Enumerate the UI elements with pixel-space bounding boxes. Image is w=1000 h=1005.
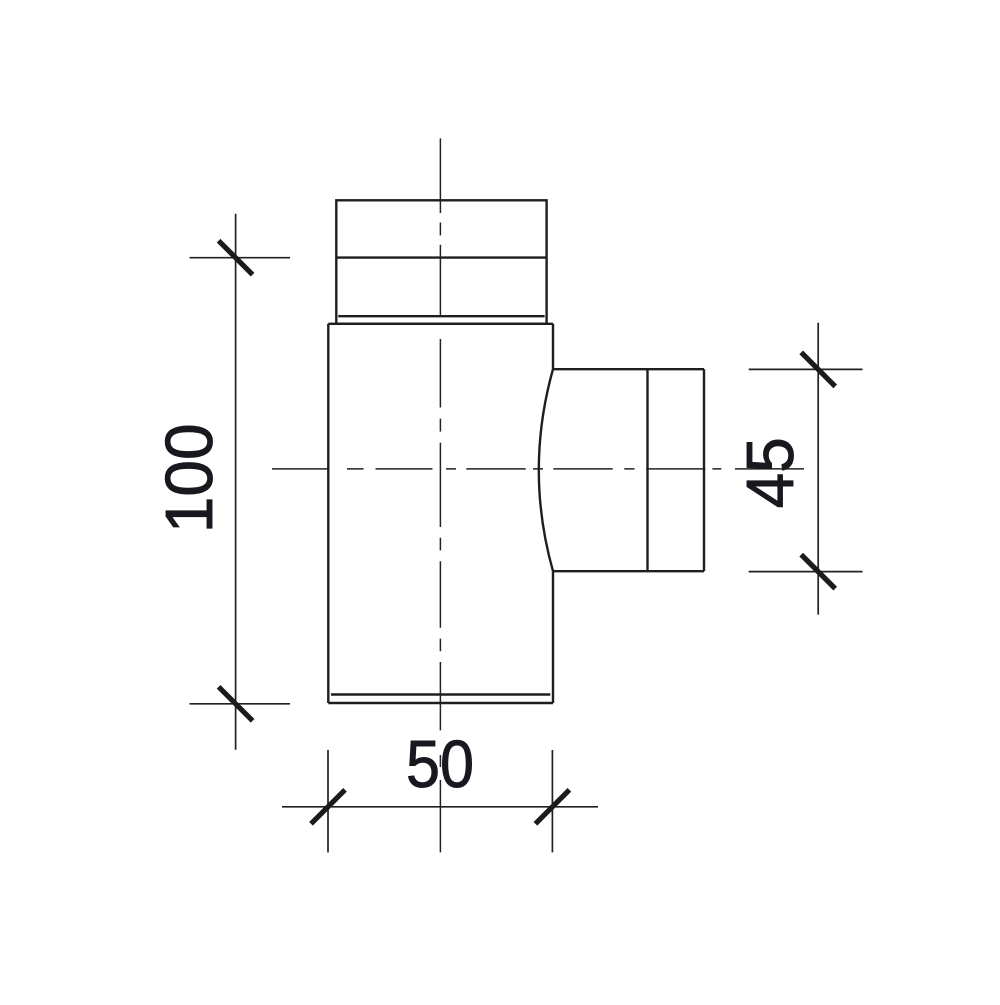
dimension 50 witness right	[551, 750, 553, 852]
spigot top outline (upper pipe end)	[336, 200, 546, 323]
svg-text:50: 50	[406, 727, 474, 802]
dimension 100 tick bottom	[219, 687, 253, 721]
dimension 50 witness left	[327, 750, 329, 852]
chamfer line top spigot	[338, 315, 544, 317]
dimension 45 extension bottom	[749, 571, 863, 573]
body right edge below branch	[552, 571, 554, 703]
dimension 100 extension bottom	[190, 703, 291, 705]
vertical centerline	[439, 138, 441, 852]
body right edge above branch	[552, 324, 554, 369]
dimension 50 tick right	[535, 790, 569, 824]
body chamfer line bottom	[331, 693, 550, 695]
socket depth line	[336, 256, 546, 258]
main body outline	[328, 324, 553, 703]
svg-text:45: 45	[733, 437, 808, 508]
horizontal centerline	[272, 468, 804, 470]
branch socket depth line	[646, 369, 648, 571]
svg-text:100: 100	[152, 423, 227, 533]
dimension 100 tick top	[219, 241, 253, 275]
dimension 100 line	[235, 214, 237, 750]
branch saddle arc	[539, 369, 553, 571]
dimension 50 tick left	[311, 790, 345, 824]
dimension 100 extension top	[190, 257, 291, 259]
dimension 45 tick bottom	[801, 555, 835, 589]
dimension 45 extension top	[749, 368, 863, 370]
dimension 50 line	[282, 806, 598, 808]
dimension 45 tick top	[801, 352, 835, 386]
dimension 45 line	[817, 323, 819, 615]
branch outline	[539, 369, 704, 571]
